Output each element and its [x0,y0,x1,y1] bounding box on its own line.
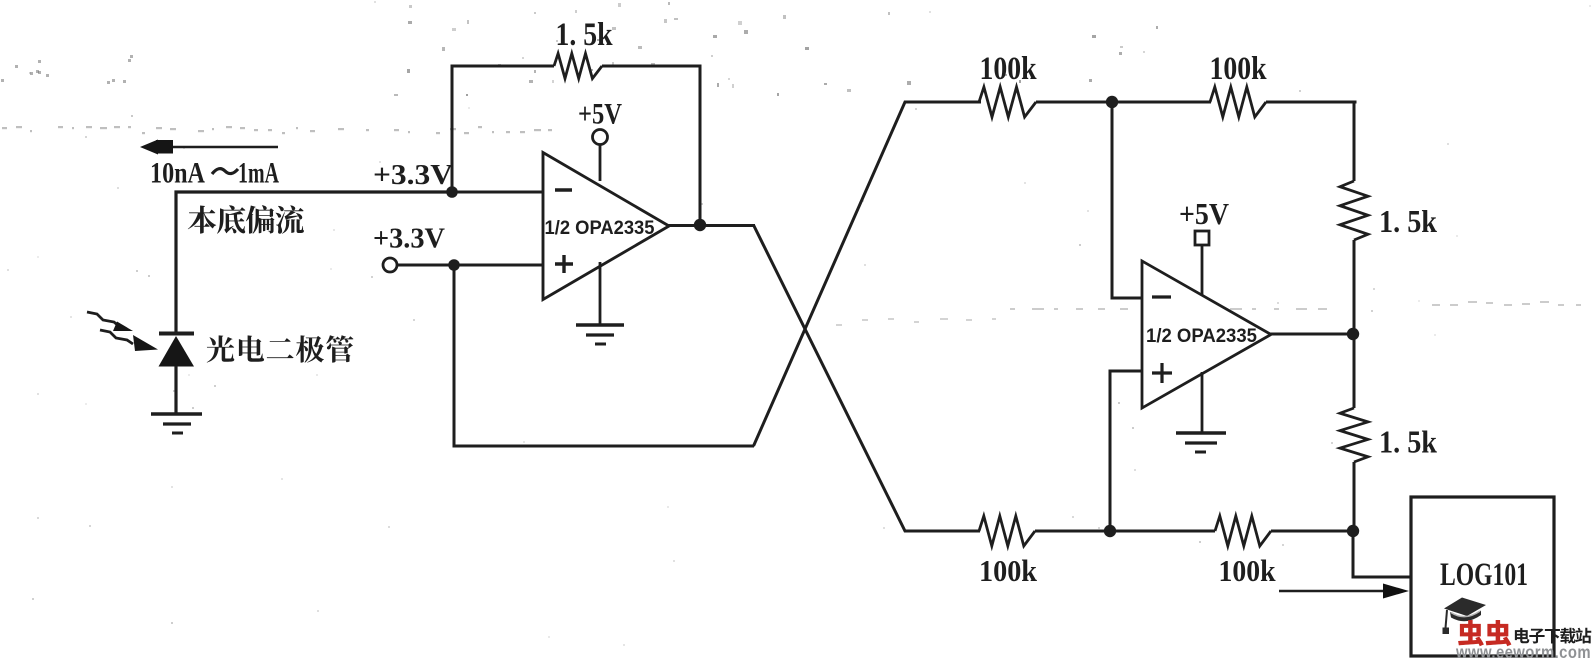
wire +5V to U2 [1201,245,1204,296]
node junction U1 output [694,219,706,231]
node junction U1 inverting input [446,186,458,198]
node junction lower [1104,525,1116,537]
wire U1 output [667,224,755,227]
wire U2 output [1269,333,1355,336]
wire R4 to output node [1353,240,1356,334]
wire U2 to ground [1201,372,1204,432]
wire right rail top [1353,101,1356,182]
feedback wire right vertical [699,66,702,225]
svg-text:100k: 100k [1210,51,1268,87]
LOG101 box [1411,497,1554,656]
wire upper node to U2 inverting input [1112,100,1143,298]
ground U1 [576,325,624,344]
light arrow 1 [87,312,133,331]
svg-text:1. 5k: 1. 5k [1379,203,1437,239]
svg-text:100k: 100k [1219,553,1277,588]
terminal square +5V U2 [1195,231,1209,245]
signal arrow into LOG101 [1279,584,1409,599]
terminal circle +3.3V [383,258,397,272]
op-amp U1 triangle [543,153,669,300]
svg-text:1/2 OPA2335: 1/2 OPA2335 [545,217,655,239]
resistor R6 100k lower-left [979,516,1035,546]
wire +5V to U1 [599,145,602,182]
resistor R1 1.5k [554,54,602,79]
resistor R3 100k upper-right [1210,87,1266,117]
svg-text:+5V: +5V [578,98,622,131]
svg-text:1. 5k: 1. 5k [556,17,614,53]
svg-text:+3.3V: +3.3V [373,159,453,191]
label 本底偏流 (background bias current) [188,205,304,234]
feedback wire top right [602,65,702,68]
svg-text:LOG101: LOG101 [1440,557,1528,593]
wire lower node down to LOG101 [1353,531,1411,577]
node junction upper [1106,96,1118,108]
wire input horizontal [175,190,454,193]
wire node to R7 [1110,530,1215,533]
svg-text:+5V: +5V [1179,196,1230,231]
op-amp U2 triangle [1142,261,1271,408]
wire R7 to right rail [1271,530,1356,533]
terminal circle +5V U1 [593,130,608,145]
svg-text:100k: 100k [980,51,1038,87]
wire R2 to node [1036,101,1112,104]
watermark graduation cap logo [1443,598,1487,635]
svg-text:1mA: 1mA [238,157,279,190]
svg-text:1/2 OPA2335: 1/2 OPA2335 [1146,325,1257,347]
resistor R5 1.5k lower [1340,408,1368,462]
wire node to R3 [1112,101,1211,104]
feedback wire left vertical [451,65,454,193]
svg-text:100k: 100k [979,553,1038,588]
U1 minus sign [555,188,572,191]
resistor R4 1.5k upper [1340,181,1368,240]
U1 plus sign [555,255,573,273]
wire U1 inverting input [452,191,545,194]
svg-text:+3.3V: +3.3V [373,224,445,255]
wire loop from non-inverting node down and right [454,263,754,446]
wire lower node to U2 non-inverting input [1110,371,1143,533]
ground U2 [1176,433,1226,452]
watermark 电子下载站 [1515,628,1591,644]
U2 plus sign [1152,363,1172,383]
svg-text:www.eeworm.com: www.eeworm.com [1455,642,1591,658]
bias current arrow [140,140,278,155]
photodiode D1 triangle [159,336,195,367]
wire output node to R5 [1353,334,1356,408]
node junction lower right [1347,525,1359,537]
resistor R2 100k upper-left [979,87,1036,117]
U2 minus sign [1152,295,1171,298]
wire R3 to right rail [1266,101,1357,104]
ground photodiode [151,414,202,433]
wire R5 to lower node [1353,462,1356,531]
resistor R7 100k lower-right [1215,516,1271,546]
wire terminal to U1 non-inverting input [397,264,545,267]
node junction U1 non-inverting input [448,259,460,271]
feedback wire top left [451,65,555,68]
wire cross: loop diagonal up to upper 100k row [754,102,982,446]
wire photodiode cathode to ground [174,366,177,414]
light arrow 2 [100,330,158,351]
wire R6 to node [1035,530,1110,533]
svg-text:10nA: 10nA [150,157,205,190]
node junction U2 output [1347,328,1359,340]
svg-text:1. 5k: 1. 5k [1379,424,1437,460]
wire U1 to ground [599,262,602,324]
wire cross: U1 output diagonal down to lower 100k row [754,225,981,531]
label 光电二极管 (photodiode) [207,335,354,362]
wire photodiode anode vertical [174,191,177,335]
watermark 虫虫 (red) [1458,620,1511,646]
photodiode D1 cathode bar [159,332,194,336]
